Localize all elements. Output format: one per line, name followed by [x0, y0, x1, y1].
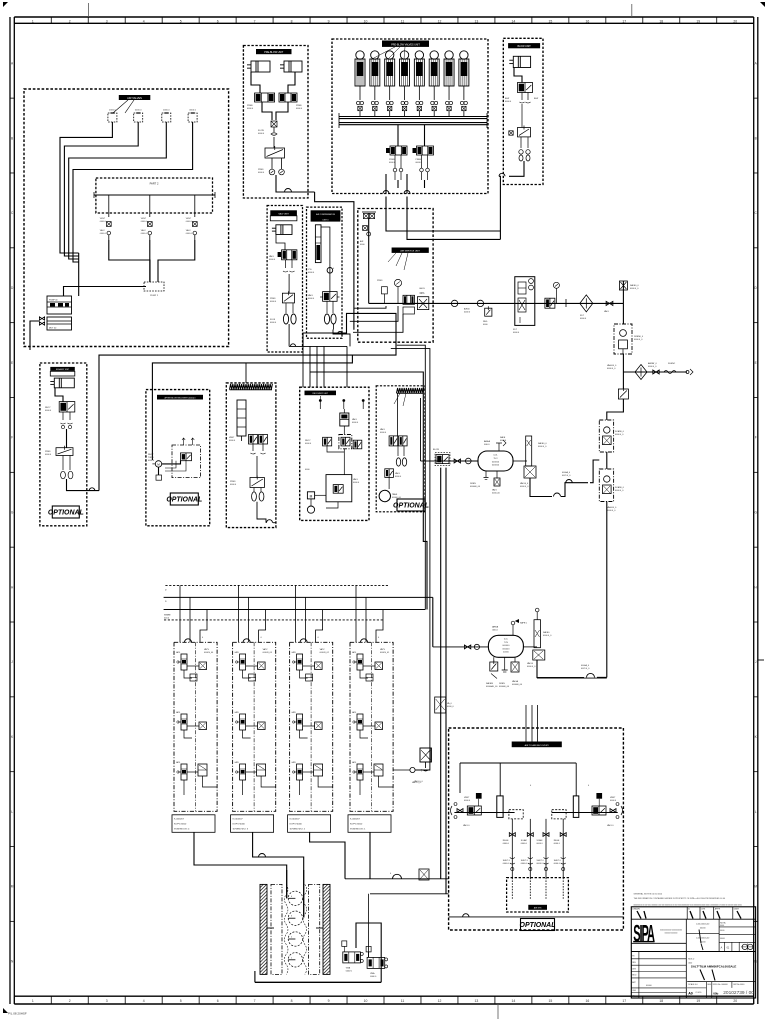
svg-text:FLUS: FLUS	[270, 319, 276, 321]
svg-text:RECY: RECY	[305, 440, 311, 442]
svg-text:VALV: VALV	[395, 472, 400, 475]
svg-text:6: 6	[217, 999, 219, 1003]
svg-text:000LN_02: 000LN_02	[320, 652, 330, 654]
svg-text:RECOVERY UNIT: RECOVERY UNIT	[313, 393, 329, 395]
svg-text:SAFE 0: SAFE 0	[520, 622, 528, 625]
svg-text:SVSEN/#072; 2: SVSEN/#072; 2	[290, 828, 306, 830]
svg-text:KOPV#0000: KOPV#0000	[290, 823, 303, 825]
svg-text:13: 13	[475, 999, 479, 1003]
svg-text:VMA: VMA	[346, 966, 351, 969]
svg-text:0AT0: 0AT0	[235, 651, 239, 654]
svg-text:17: 17	[622, 999, 626, 1003]
svg-text:AIR00: AIR00	[464, 308, 470, 311]
svg-text:PREB: PREB	[416, 159, 422, 161]
svg-text:10: 10	[364, 19, 368, 23]
svg-text:FLOW: FLOW	[258, 130, 264, 132]
svg-text:0000 0_0: 0000 0_0	[607, 510, 616, 512]
svg-text:5: 5	[180, 19, 182, 23]
svg-text:0000_0: 0000_0	[447, 706, 455, 708]
svg-text:20: 20	[733, 19, 737, 23]
svg-text:15: 15	[548, 999, 552, 1003]
svg-text:0000 0: 0000 0	[305, 443, 312, 445]
svg-text:RECY: RECY	[148, 454, 154, 456]
svg-text:0070 0_0: 0070 0_0	[581, 668, 590, 670]
svg-text:AIR SYS: AIR SYS	[534, 907, 542, 910]
svg-text:0000 0_0: 0000 0_0	[630, 288, 639, 290]
svg-text:0AT0: 0AT0	[176, 711, 180, 714]
svg-text:SAFEM: SAFEM	[486, 682, 493, 685]
svg-text:00/00: 00/00	[720, 938, 725, 940]
svg-text:0000 0: 0000 0	[141, 221, 148, 223]
svg-text:SHUT 0: SHUT 0	[503, 860, 511, 862]
svg-text:0000 0: 0000 0	[100, 221, 107, 223]
svg-text:THE INFORMATION CONTAINED HERE: THE INFORMATION CONTAINED HEREIN IS PROP…	[634, 897, 727, 900]
svg-text:VALV: VALV	[100, 229, 105, 232]
svg-text:0AT0: 0AT0	[292, 761, 296, 764]
svg-text:SHUT 0: SHUT 0	[554, 860, 562, 862]
svg-text:0000 0: 0000 0	[521, 843, 528, 845]
svg-text:0000.0: 0000.0	[135, 109, 142, 111]
svg-text:SAFE0_0: SAFE0_0	[630, 284, 639, 287]
svg-text:0AT0: 0AT0	[235, 761, 239, 764]
svg-text:REG: REG	[483, 321, 488, 323]
svg-text:0AT0: 0AT0	[352, 761, 356, 764]
svg-text:3: 3	[106, 999, 108, 1003]
svg-text:0000 0_0: 0000 0_0	[538, 446, 547, 448]
svg-text:E: E	[11, 361, 13, 365]
svg-text:0000 0: 0000 0	[380, 432, 387, 434]
svg-text:VATV: VATV	[380, 648, 386, 651]
svg-text:8: 8	[291, 19, 293, 23]
svg-text:0000 0_0: 0000 0_0	[607, 368, 616, 370]
svg-text:VALV 0_0: VALV 0_0	[414, 780, 424, 783]
svg-text:VALV: VALV	[141, 229, 146, 232]
svg-text:16: 16	[585, 999, 589, 1003]
svg-text:0000.0: 0000.0	[163, 109, 170, 111]
svg-text:PRES: PRES	[270, 298, 276, 300]
svg-text:}: }	[421, 768, 422, 772]
svg-text:PUMP 00: PUMP 00	[49, 300, 58, 302]
svg-text:6: 6	[217, 19, 219, 23]
svg-text:VALV UNIT: VALV UNIT	[278, 213, 289, 216]
svg-text:000000: 000000	[492, 461, 500, 463]
svg-text:VENT: VENT	[610, 797, 616, 799]
svg-text:0000 0: 0000 0	[505, 101, 512, 103]
svg-text:8: 8	[291, 999, 293, 1003]
svg-text:0000 0: 0000 0	[229, 440, 236, 442]
svg-text:0AT0: 0AT0	[176, 651, 180, 654]
svg-text:UNIT 0: UNIT 0	[323, 219, 329, 221]
svg-text:L: L	[755, 810, 757, 814]
svg-text:PRES: PRES	[45, 451, 51, 453]
svg-text:1: 1	[32, 19, 34, 23]
svg-text:0000 0: 0000 0	[270, 322, 277, 324]
svg-text:2: 2	[69, 19, 71, 23]
svg-text:VALV 0: VALV 0	[607, 824, 614, 827]
svg-text:KOPV#0000: KOPV#0000	[233, 823, 246, 825]
svg-text:0AT0: 0AT0	[176, 761, 180, 764]
svg-text:0AT0: 0AT0	[292, 711, 296, 714]
svg-text:M: M	[310, 494, 313, 498]
svg-text:14: 14	[512, 19, 516, 23]
svg-text:VENT: VENT	[141, 218, 147, 220]
svg-text:BLW: BLW	[505, 98, 509, 100]
svg-text:CAT No 0000: CAT No 0000	[733, 983, 744, 986]
svg-text:VA0000_0: VA0000_0	[607, 364, 617, 367]
svg-text:00000: 00000	[700, 941, 706, 943]
svg-text:18: 18	[659, 19, 663, 23]
svg-text:SVSEN/#072; 1: SVSEN/#072; 1	[350, 828, 366, 830]
svg-text:0000 0: 0000 0	[270, 301, 277, 303]
svg-text:0000 0_0: 0000 0_0	[634, 339, 643, 341]
svg-text:17: 17	[622, 19, 626, 23]
svg-text:0000 0: 0000 0	[247, 108, 254, 110]
svg-text:000LN_03: 000LN_03	[263, 652, 273, 654]
svg-text:BLW: BLW	[534, 98, 538, 100]
svg-text:REGE: REGE	[503, 840, 509, 842]
svg-text:SCALE 0:0: SCALE 0:0	[688, 983, 697, 986]
svg-text:4: 4	[143, 999, 145, 1003]
svg-text:00000: 00000	[646, 985, 652, 987]
svg-text:KOPV#0000: KOPV#0000	[350, 823, 363, 825]
svg-text:AIR SERVICE UNIT: AIR SERVICE UNIT	[400, 250, 420, 253]
svg-text:K.0000/07: K.0000/07	[350, 818, 361, 820]
svg-text:19: 19	[696, 999, 700, 1003]
svg-text:0000 0: 0000 0	[353, 482, 360, 484]
svg-text:9: 9	[328, 19, 330, 23]
svg-text:PART 2: PART 2	[150, 182, 159, 186]
svg-text:SCAR0_0: SCAR0_0	[615, 486, 625, 489]
svg-text:0000.0: 0000.0	[189, 109, 196, 111]
svg-text:0000 0: 0000 0	[258, 172, 265, 174]
svg-text:4: 4	[143, 19, 145, 23]
svg-text:0000 0_0: 0000 0_0	[615, 434, 624, 436]
svg-text:TUV: TUV	[493, 458, 498, 460]
svg-text:DREN: DREN	[499, 683, 505, 685]
svg-text:0000 0: 0000 0	[100, 233, 107, 235]
svg-text:AERAT_0: AERAT_0	[648, 362, 658, 365]
svg-text:10: 10	[364, 999, 368, 1003]
svg-text:VATV: VATV	[263, 648, 269, 651]
svg-text:VALV: VALV	[308, 294, 313, 297]
svg-text:0AT0: 0AT0	[235, 711, 239, 714]
svg-text:VALV: VALV	[269, 255, 274, 258]
svg-text:0000 0: 0000 0	[464, 800, 471, 802]
svg-text:0000 0: 0000 0	[370, 976, 377, 978]
svg-text:0000: 0000	[720, 930, 724, 932]
svg-text:B: B	[11, 136, 13, 140]
svg-text:A0: A0	[688, 992, 693, 996]
svg-text:BLOW UNIT: BLOW UNIT	[517, 45, 531, 48]
svg-text:0000 0: 0000 0	[537, 863, 544, 865]
svg-text:PREB: PREB	[296, 105, 302, 107]
svg-text:20102739 / 00: 20102739 / 00	[723, 990, 754, 996]
svg-text:000000_00: 000000_00	[499, 686, 510, 688]
svg-text:SAFE: SAFE	[500, 436, 506, 439]
svg-text:DRAWN: DRAWN	[632, 908, 640, 911]
svg-text:PREB: PREB	[247, 105, 253, 107]
svg-text:000000 0000000: 000000 0000000	[665, 933, 678, 935]
svg-text:11: 11	[401, 999, 405, 1003]
svg-text:000000000000 00000000000: 000000000000 00000000000	[660, 930, 682, 932]
svg-text:TANK: TANK	[392, 493, 398, 496]
svg-text:0000 0_0: 0000 0_0	[527, 666, 536, 668]
svg-text:CHK: CHK	[701, 909, 706, 911]
svg-text:13: 13	[475, 19, 479, 23]
svg-text:SILENC: SILENC	[668, 363, 676, 365]
svg-text:VA0000_0: VA0000_0	[607, 506, 617, 509]
svg-text:VALV0: VALV0	[527, 662, 534, 665]
svg-text:SCAM: SCAM	[521, 839, 527, 842]
svg-text:M: M	[754, 885, 757, 889]
svg-text:000%: 000%	[419, 288, 425, 290]
svg-text:MOT 00: MOT 00	[49, 328, 57, 330]
svg-text:PREB: PREB	[389, 159, 395, 161]
svg-text:00000AL_00: 00000AL_00	[486, 685, 498, 688]
svg-text:0000 0: 0000 0	[610, 800, 617, 802]
svg-text:0000: 0000	[720, 925, 724, 927]
svg-text:OPTIONAL: OPTIONAL	[520, 922, 556, 929]
svg-text:DREN0_0: DREN0_0	[634, 336, 644, 338]
svg-text:0000: 0000	[707, 984, 711, 986]
svg-text:000000: 000000	[502, 645, 510, 647]
svg-text:SVSEN/#072; 3: SVSEN/#072; 3	[233, 828, 249, 830]
svg-text:VMA: VMA	[370, 972, 375, 975]
svg-text:PRES: PRES	[377, 280, 383, 282]
svg-text:000000: 000000	[502, 648, 510, 650]
svg-text:SHUT 0: SHUT 0	[537, 860, 545, 862]
svg-text:11: 11	[401, 19, 405, 23]
svg-text:0-00-00000-00: 0-00-00000-00	[696, 923, 710, 925]
svg-text:0000 0: 0000 0	[503, 863, 510, 865]
svg-text:DATE: DATE	[734, 908, 740, 911]
svg-text:K.0000/07: K.0000/07	[290, 818, 301, 820]
svg-text:00000: 00000	[503, 652, 510, 654]
svg-text:000.0: 000.0	[492, 630, 498, 632]
svg-text:12: 12	[438, 999, 442, 1003]
svg-text:GENERAL NOTES 00 00 0000: GENERAL NOTES 00 00 0000	[634, 892, 663, 895]
svg-text:15: 15	[548, 19, 552, 23]
svg-text:0AT0: 0AT0	[352, 711, 356, 714]
svg-text:1: 1	[32, 999, 34, 1003]
svg-text:00000: 00000	[700, 927, 706, 929]
svg-text:0000 0: 0000 0	[230, 484, 237, 486]
svg-text:TUV: TUV	[504, 642, 509, 644]
svg-text:E: E	[755, 361, 757, 365]
svg-text:DREN: DREN	[470, 483, 476, 485]
svg-text:AREA: AREA	[492, 626, 498, 629]
svg-text:EXHAUST UNIT: EXHAUST UNIT	[56, 368, 70, 371]
svg-text:B: B	[755, 136, 757, 140]
svg-text:0000 0: 0000 0	[537, 843, 544, 845]
svg-text:0000 0: 0000 0	[186, 221, 193, 223]
svg-text:KOPV#0000: KOPV#0000	[174, 823, 187, 825]
svg-text:0000A_0: 0000A_0	[581, 664, 590, 667]
svg-text:VALV: VALV	[186, 229, 191, 232]
svg-text:9: 9	[328, 999, 330, 1003]
svg-text:AIR: AIR	[360, 240, 364, 243]
svg-text:0000 0: 0000 0	[464, 312, 471, 314]
svg-text:14: 14	[512, 999, 516, 1003]
svg-text:0000 0: 0000 0	[554, 863, 561, 865]
svg-text:DWG No. 000000: DWG No. 000000	[713, 984, 728, 986]
svg-text:P/L 08 20HSF: P/L 08 20HSF	[8, 1012, 27, 1016]
svg-text:0' 00%: 0' 00%	[696, 992, 702, 994]
svg-text:SAFE0_0: SAFE0_0	[538, 442, 547, 445]
svg-text:K.0000/07: K.0000/07	[174, 818, 185, 820]
svg-text:0000 0_0: 0000 0_0	[615, 490, 624, 492]
svg-text:AFTER BLOW RECOVERY (0000) 0: AFTER BLOW RECOVERY (0000) 0	[165, 396, 196, 399]
svg-text:12: 12	[438, 19, 442, 23]
svg-text:K.0000/07: K.0000/07	[233, 818, 244, 820]
svg-text:20: 20	[733, 999, 737, 1003]
svg-text:VENT: VENT	[100, 218, 106, 220]
svg-text:0000 0: 0000 0	[580, 318, 587, 320]
svg-text:VATV: VATV	[204, 648, 210, 651]
svg-text:SALT*TILM AMM00FCAL00/SALE: SALT*TILM AMM00FCAL00/SALE	[691, 965, 737, 969]
svg-text:NOTA: NOTA	[720, 921, 726, 924]
svg-text:0000 0: 0000 0	[308, 272, 315, 274]
svg-text:M: M	[11, 885, 14, 889]
svg-text:000000_00: 000000_00	[512, 684, 523, 686]
svg-text:0AT0: 0AT0	[352, 651, 356, 654]
svg-text:VALV 0: VALV 0	[463, 824, 470, 827]
svg-text:0000A_0: 0000A_0	[562, 471, 571, 474]
svg-text:SCAM: SCAM	[537, 839, 543, 842]
svg-text:3: 3	[106, 19, 108, 23]
svg-text:0-00-00000-00: 0-00-00000-00	[696, 937, 710, 939]
svg-text:0000 0_0: 0000 0_0	[543, 635, 552, 637]
svg-text:0000 0: 0000 0	[395, 476, 402, 478]
svg-text:VENT: VENT	[186, 218, 192, 220]
svg-text:AREA: AREA	[484, 440, 490, 443]
svg-text:000.0: 000.0	[164, 617, 170, 619]
svg-text:OPTIONAL: OPTIONAL	[48, 509, 84, 516]
svg-text:P0: P0	[632, 956, 634, 958]
svg-text:F: F	[755, 436, 757, 440]
svg-text:0000 0: 0000 0	[521, 863, 528, 865]
svg-text:0000 0: 0000 0	[258, 133, 265, 135]
svg-text:0000 0: 0000 0	[148, 460, 155, 462]
svg-text:AIR COMPENSATION: AIR COMPENSATION	[316, 213, 336, 216]
svg-text:000000_00: 000000_00	[470, 486, 481, 488]
svg-text:0000 0: 0000 0	[346, 970, 353, 972]
svg-text:0000 0_0: 0000 0_0	[520, 486, 529, 488]
svg-text:5: 5	[180, 999, 182, 1003]
svg-text:SAFE0: SAFE0	[543, 631, 550, 634]
svg-text:16: 16	[585, 19, 589, 23]
svg-text:AIR TO AIR RECOVERY: AIR TO AIR RECOVERY	[525, 744, 550, 747]
svg-text:SIPA: SIPA	[633, 920, 655, 947]
svg-text:SHUT 0: SHUT 0	[521, 860, 529, 862]
svg-text:SCAR0_0: SCAR0_0	[615, 430, 625, 433]
svg-text:VALVA: VALVA	[512, 680, 519, 683]
svg-text:000.0: 000.0	[484, 444, 490, 446]
svg-text:0000 0: 0000 0	[352, 422, 359, 424]
svg-text:0AT0: 0AT0	[292, 651, 296, 654]
svg-text:0000 0: 0000 0	[513, 332, 520, 334]
svg-text:F: F	[11, 436, 13, 440]
svg-text:AIR VALVES: AIR VALVES	[127, 96, 142, 100]
svg-text:VALV: VALV	[352, 418, 357, 421]
svg-text:18: 18	[659, 999, 663, 1003]
svg-text:SPARE: SPARE	[164, 614, 171, 617]
svg-text:VALV: VALV	[604, 310, 609, 313]
svg-text:MOLD: MOLD	[688, 958, 695, 960]
svg-text:0000 0: 0000 0	[503, 843, 510, 845]
svg-text:00000000 00 00 000 000000 000: 00000000 00 00 000 000000 000 00 0000000…	[634, 904, 742, 906]
svg-text:0000 0: 0000 0	[45, 454, 52, 456]
svg-text:PRE-BLOW VALVES UNIT: PRE-BLOW VALVES UNIT	[391, 43, 420, 46]
svg-text:L: L	[11, 810, 13, 814]
svg-text:0000 0_0: 0000 0_0	[648, 366, 657, 368]
svg-text:7: 7	[254, 19, 256, 23]
svg-text:19: 19	[696, 19, 700, 23]
svg-text:RECY: RECY	[45, 407, 51, 409]
svg-text:VENT: VENT	[229, 437, 235, 439]
svg-text:REGE: REGE	[554, 840, 560, 842]
svg-text:0000 0: 0000 0	[296, 108, 303, 110]
svg-text:VATV: VATV	[320, 648, 326, 651]
svg-text:MOD: MOD	[632, 975, 637, 977]
svg-text:0070 0_0: 0070 0_0	[562, 475, 571, 477]
svg-text:VALV0_0: VALV0_0	[520, 482, 529, 485]
svg-text:PRES: PRES	[258, 169, 264, 171]
svg-text:VALV: VALV	[353, 478, 358, 481]
svg-text:TURB: TURB	[148, 457, 154, 459]
svg-text:SVSEN/#072; 4: SVSEN/#072; 4	[174, 828, 190, 830]
svg-text:0000_00: 0000_00	[492, 493, 501, 495]
svg-text:0000 0: 0000 0	[269, 259, 276, 261]
svg-text:00000_00: 00000_00	[392, 497, 402, 499]
svg-text:PRE-BLOW UNIT: PRE-BLOW UNIT	[264, 51, 284, 54]
svg-text:BLOW: BLOW	[433, 449, 439, 451]
svg-text:APPR: APPR	[715, 908, 721, 911]
svg-text:000000: 000000	[492, 465, 500, 467]
svg-text:000LN_01: 000LN_01	[380, 652, 390, 654]
svg-text:VENT: VENT	[464, 797, 470, 799]
svg-text:0000 0: 0000 0	[554, 843, 561, 845]
svg-text:PRES: PRES	[230, 481, 236, 483]
svg-text:0000 0: 0000 0	[308, 298, 315, 300]
svg-text:0000 0: 0000 0	[186, 233, 193, 235]
svg-text:0000 0: 0000 0	[45, 410, 52, 412]
svg-text:VALV: VALV	[380, 428, 385, 431]
svg-text:PUMP 2: PUMP 2	[150, 295, 159, 297]
svg-text:00b: 00b	[713, 991, 718, 995]
svg-text:OPTIONAL: OPTIONAL	[166, 496, 202, 503]
svg-text:0000 0: 0000 0	[141, 233, 148, 235]
svg-text:000LN_04: 000LN_04	[204, 652, 214, 654]
svg-text:VALV: VALV	[492, 489, 497, 492]
svg-text:7: 7	[254, 999, 256, 1003]
svg-text:2: 2	[69, 999, 71, 1003]
